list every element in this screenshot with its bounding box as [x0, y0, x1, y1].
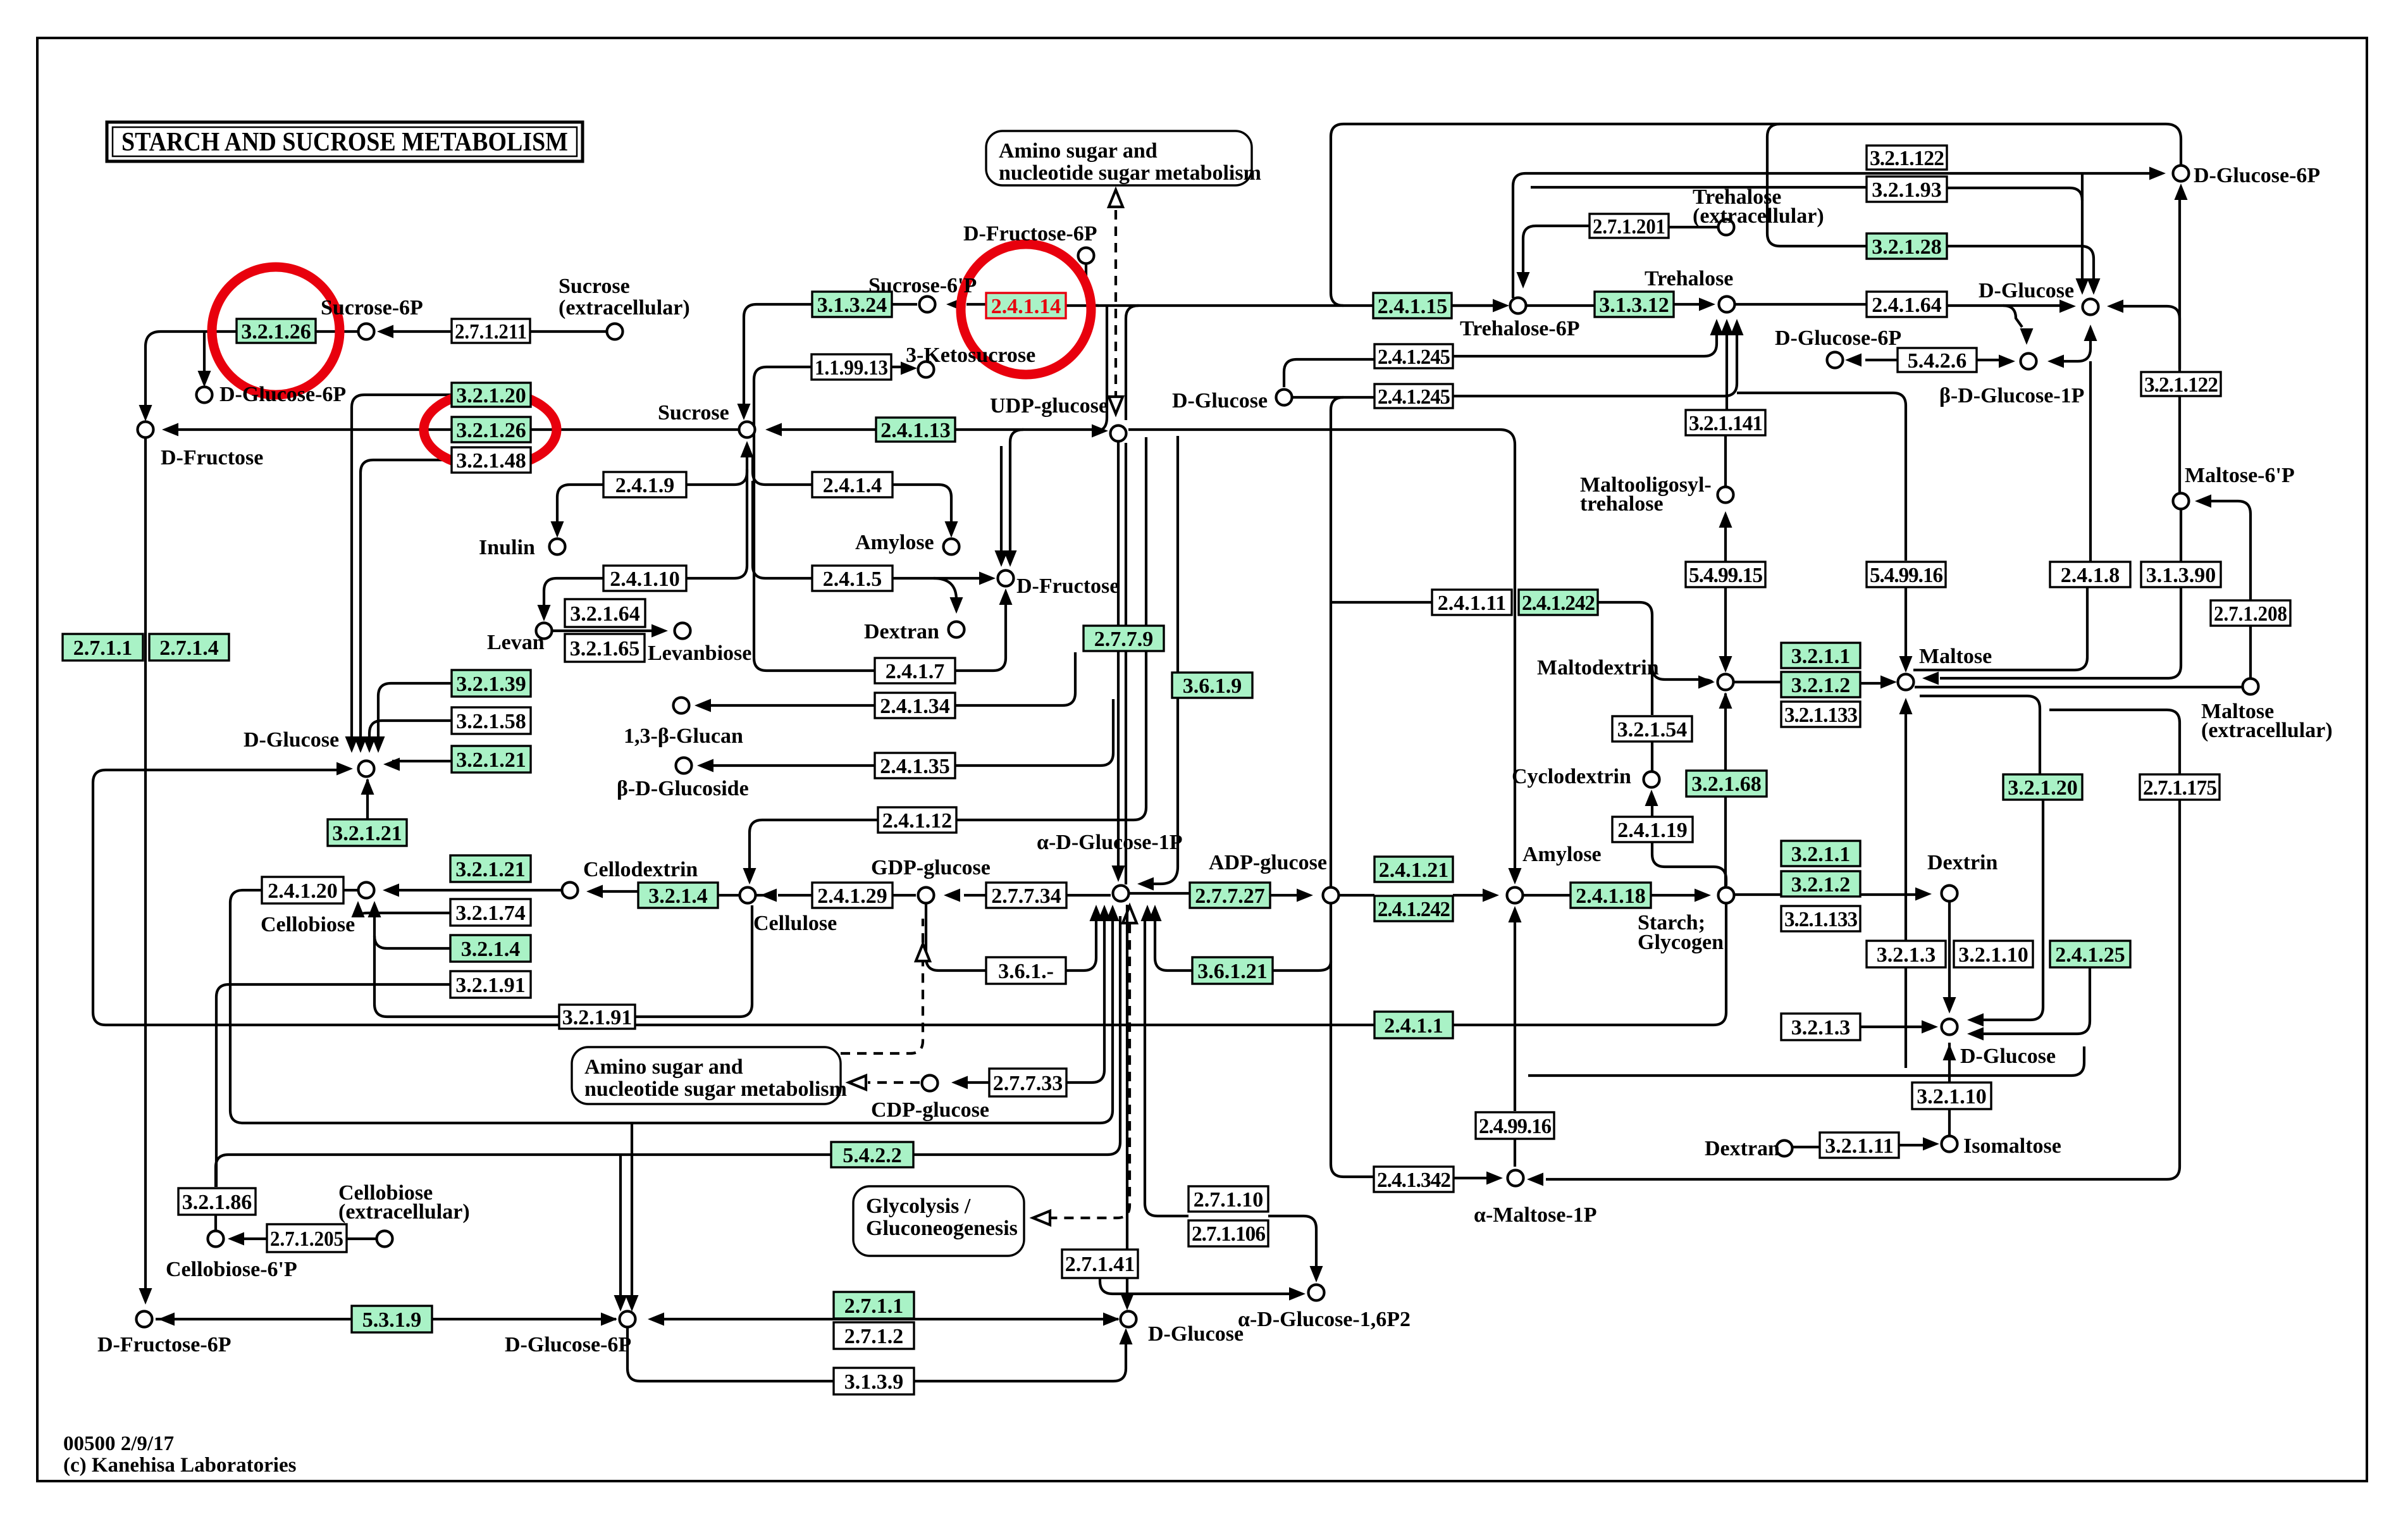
node D-Glucose-6P bottom — [620, 1312, 636, 1327]
wire ADP to 2.4.1.21 row — [1339, 894, 1374, 897]
box 3.1.3.9 — [834, 1368, 914, 1394]
wire cellulose row — [391, 889, 561, 891]
arrowhead into D-Glucose-6P bottom left — [601, 1313, 617, 1326]
svg-text:2.7.7.33: 2.7.7.33 — [993, 1072, 1063, 1095]
wire 2.4.1.34 row — [703, 704, 875, 707]
arrowhead into D-Glucose-6P right bottom — [2175, 183, 2188, 200]
node 3-Ketosucrose — [918, 362, 934, 378]
wire drop b to D-Glucose-6P bottom — [631, 1123, 633, 1303]
svg-text:STARCH AND SUCROSE METABOLI: STARCH AND SUCROSE METABOLISM — [121, 128, 568, 157]
svg-text:Trehalose: Trehalose — [1645, 267, 1733, 290]
open arrowhead open arrow into glycolysis — [1033, 1211, 1050, 1225]
wire dashed hub to glycolysis — [1042, 924, 1130, 1218]
arrowhead into D-Glucose-6P right — [2149, 167, 2166, 180]
wire 2.4.1.34 right — [955, 652, 1075, 705]
box 3.2.1.86 — [178, 1188, 256, 1215]
box 3.6.1.- — [986, 957, 1066, 984]
box 2.4.1.10 — [603, 566, 686, 591]
svg-text:2.7.1.208: 2.7.1.208 — [2214, 602, 2287, 626]
wire dextran2 to 3.2.1.11 — [1792, 1146, 1820, 1148]
wire levan to levanbiose — [552, 630, 660, 632]
wire 2.4.1.29 to GDP — [892, 894, 916, 897]
box 2.4.1.19 — [1612, 817, 1693, 842]
node Cellobiose-6'P — [208, 1231, 224, 1247]
node GDP-glucose — [918, 888, 934, 903]
wire 2.4.1.11 row left — [1331, 601, 1432, 604]
node Cyclodextrin — [1644, 772, 1660, 788]
box 2.7.1.208 — [2211, 600, 2290, 626]
wire drop to D-Glucose-6P top-left — [203, 333, 206, 378]
svg-text:3.2.1.2: 3.2.1.2 — [1791, 873, 1851, 897]
svg-text:D-Glucose-6P: D-Glucose-6P — [505, 1333, 631, 1356]
node Sucrose (extracellular) — [607, 324, 623, 340]
svg-text:2.4.1.7: 2.4.1.7 — [886, 660, 945, 683]
box 2.7.1.4 — [149, 634, 229, 661]
wire 1.1.99.13 to 3-Ketosucrose — [891, 366, 910, 368]
svg-text:2.7.1.211: 2.7.1.211 — [455, 320, 527, 344]
arrowhead into Trehalose b — [1720, 319, 1734, 335]
svg-text:Sucrose-6'P: Sucrose-6'P — [868, 274, 977, 297]
svg-text:3.2.1.4: 3.2.1.4 — [648, 884, 708, 908]
box 2.4.1.13 — [876, 418, 955, 442]
open arrowhead open arrow into amino sugar box — [849, 1076, 866, 1089]
arrowhead into Maltodextrin bottom — [1719, 692, 1732, 709]
wire sucrose down right 2415 — [753, 481, 812, 578]
arrowhead into D-Glucose r top b — [2087, 278, 2101, 295]
wire 3.2.1.21a to hub — [392, 760, 452, 762]
node alpha-D-Glucose-1,6P2 — [1309, 1285, 1324, 1301]
arrowhead into Sucrose top — [738, 404, 751, 420]
box 5.3.1.9 — [352, 1306, 432, 1332]
box 3.1.3.12 — [1595, 292, 1674, 317]
wire D-Fructose to D-Fructose-6P long vertical — [144, 437, 147, 1296]
svg-text:2.4.1.25: 2.4.1.25 — [2055, 943, 2125, 967]
wire sucrose-6P row left into D-Fructose drop — [145, 332, 359, 411]
svg-text:3.2.1.21: 3.2.1.21 — [456, 748, 526, 772]
pathway box amino sugar metabolism (top) — [986, 131, 1252, 185]
svg-text:Maltose: Maltose — [1919, 645, 1992, 668]
svg-text:3.2.1.26: 3.2.1.26 — [456, 419, 526, 442]
wire 2.4.1.35 row — [706, 764, 875, 767]
arrowhead into b-D-Glucose-1P left — [1999, 355, 2015, 368]
arrowhead into Sucrose-6P — [377, 325, 393, 338]
node Maltodextrin — [1718, 674, 1734, 690]
svg-text:(extracellular): (extracellular) — [338, 1200, 470, 1224]
wire 3.2.1.20b down — [1976, 800, 2043, 1020]
wire 5.3.1.9 row right — [432, 1318, 616, 1320]
box 3.2.1.21 #1 — [452, 746, 531, 773]
arrowhead into 1,3-b-glucan — [695, 699, 711, 712]
wire 2.7.1.10 line right to aDG16P2 — [1268, 1216, 1316, 1274]
arrowhead into UDP-glucose — [1092, 425, 1108, 438]
node Amylose top — [944, 539, 960, 555]
node Inulin — [550, 539, 565, 555]
box 2.4.1.4 — [812, 472, 892, 497]
node D-Glucose bottom — [1121, 1312, 1137, 1327]
node alpha-Maltose-1P — [1508, 1170, 1524, 1186]
svg-text:2.4.1.34: 2.4.1.34 — [880, 695, 950, 718]
svg-text:3.2.1.39: 3.2.1.39 — [456, 673, 526, 696]
svg-text:Sucrose: Sucrose — [559, 275, 630, 298]
wire dashed amino sugar to UDP — [1114, 210, 1117, 413]
node Dextran 2 — [1777, 1141, 1793, 1157]
wire GDP down to 3.6.1.- — [926, 904, 986, 971]
arrowhead into aDG1P b — [1098, 905, 1111, 921]
svg-text:Sucrose-6P: Sucrose-6P — [321, 296, 423, 320]
box 3.2.1.133 #1 — [1781, 702, 1860, 727]
arrowhead into Amylose2 bottom — [1509, 906, 1522, 922]
wire 3.2.1.20b up link — [1920, 696, 2040, 774]
box 3.2.1.74 — [450, 899, 531, 926]
box 2.7.1.41 — [1062, 1250, 1138, 1278]
svg-text:Sucrose: Sucrose — [658, 401, 729, 425]
wire maltose extracellular to maltose — [1915, 686, 2242, 688]
box 3.2.1.21 #3 — [450, 855, 531, 882]
wire maltodextrin to 3.2.1.1 row — [1733, 681, 1781, 683]
wire 2.4.1.342 to a-maltose-1P — [1454, 1177, 1495, 1179]
svg-text:2.4.1.13: 2.4.1.13 — [880, 419, 951, 442]
svg-text:Glycogen: Glycogen — [1638, 931, 1724, 954]
svg-text:Inulin: Inulin — [479, 536, 535, 559]
svg-text:nucleotide sugar metabolism: nucleotide sugar metabolism — [999, 161, 1261, 185]
node beta-D-Glucose-1P — [2021, 354, 2037, 369]
svg-text:D-Glucose: D-Glucose — [1148, 1322, 1244, 1346]
arrowhead into D-Fructose2 bottom — [999, 588, 1013, 605]
arrowhead into D-Glucose bottom top — [1121, 1294, 1134, 1310]
wire 2.4.1.8 down to maltose — [1913, 587, 2087, 670]
wire 2.4.1.35 right — [955, 699, 1113, 766]
svg-text:D-Glucose-6P: D-Glucose-6P — [219, 383, 346, 406]
node Dextran top — [949, 622, 965, 638]
box 3.2.1.133 #2 — [1781, 906, 1860, 931]
arrowhead into D-Glucose r top a — [2076, 278, 2089, 295]
wire 3.2.1.68 down to starch — [1724, 797, 1727, 887]
arrowhead into aDG1P d — [1141, 905, 1154, 921]
svg-text:(extracellular): (extracellular) — [1693, 204, 1824, 228]
svg-text:3.2.1.1: 3.2.1.1 — [1791, 645, 1851, 668]
arrowhead into D-Fructose2 top a — [1004, 550, 1017, 567]
svg-text:3.2.1.21: 3.2.1.21 — [332, 822, 402, 845]
svg-text:2.4.1.245: 2.4.1.245 — [1378, 385, 1450, 409]
svg-text:Isomaltose: Isomaltose — [1963, 1134, 2061, 1158]
node D-Fructose 2 — [998, 571, 1014, 586]
wire 2.7.7.33 up to hub — [1066, 916, 1104, 1083]
svg-text:3.2.1.28: 3.2.1.28 — [1872, 235, 1942, 259]
wire drop to D-Fructose2 a — [1010, 430, 1023, 558]
svg-text:2.4.1.19: 2.4.1.19 — [1617, 819, 1688, 842]
arrowhead into D-Glucose4 top — [1943, 997, 1956, 1014]
svg-text:5.4.2.2: 5.4.2.2 — [843, 1144, 902, 1167]
svg-text:ADP-glucose: ADP-glucose — [1209, 851, 1327, 874]
arrowhead into aDG1P upper right — [1137, 878, 1154, 891]
box 2.7.7.34 — [986, 883, 1066, 908]
wire UDP down through 2.7.7.9 — [1117, 442, 1120, 873]
svg-text:2.7.1.1: 2.7.1.1 — [844, 1294, 904, 1318]
wire 2.4.1.1 long left loop — [93, 770, 1374, 1025]
svg-text:3.2.1.3: 3.2.1.3 — [1791, 1016, 1851, 1039]
arrowhead into Levan — [538, 605, 551, 621]
svg-text:3.6.1.9: 3.6.1.9 — [1183, 674, 1242, 698]
arrowhead into D-Fructose2 left — [979, 572, 996, 585]
box 3.2.1.122 #2 — [2141, 372, 2221, 397]
svg-text:2.7.1.1: 2.7.1.1 — [73, 636, 133, 660]
wire 2.7.1.41 down elbow to aDG16P2 — [1100, 1278, 1298, 1294]
wire cellodextrin to 3.2.1.4b — [595, 890, 638, 893]
svg-text:Glycolysis /: Glycolysis / — [866, 1194, 971, 1218]
wire CDP dashed to amino sugar — [868, 1081, 920, 1084]
arrowhead into D-Fructose right — [162, 423, 178, 437]
wire 2.4.1.19 up to Cyclodextrin — [1651, 798, 1653, 817]
svg-text:2.4.1.9: 2.4.1.9 — [615, 474, 675, 497]
svg-text:3.1.3.12: 3.1.3.12 — [1599, 294, 1669, 317]
wire 3.6.1.- up to hub — [1066, 916, 1096, 971]
node Maltose (extracellular) — [2243, 679, 2259, 695]
wire 2.4.1.7 up to D-Fructose2 — [955, 597, 1006, 671]
node Isomaltose — [1942, 1136, 1958, 1152]
box 2.4.1.9 — [603, 472, 686, 497]
wire branch to Dextran — [934, 578, 956, 600]
node D-Glucose center — [359, 761, 374, 777]
arrowhead into DG6P bottom b — [626, 1295, 639, 1312]
arrowhead into 3-Ketosucrose — [901, 362, 917, 375]
node D-Glucose-6P right — [2173, 166, 2189, 182]
arrowhead into D-Glucose bottom bottom — [1120, 1328, 1133, 1344]
arrowhead into Inulin — [551, 521, 564, 538]
wire feed trehalose b from 3.2.1.141 — [1726, 335, 1728, 410]
arrowhead into D-Glucose c left — [337, 762, 353, 776]
box 5.4.2.2 — [831, 1142, 913, 1167]
node Sucrose-6'P — [920, 297, 935, 313]
arrowhead into Maltose-6P — [2195, 495, 2211, 508]
arrowhead into aDG1P top — [1112, 866, 1125, 882]
box 5.4.99.16 — [1867, 562, 1946, 587]
svg-text:3.2.1.54: 3.2.1.54 — [1617, 718, 1688, 741]
svg-text:Cellobiose-6'P: Cellobiose-6'P — [166, 1258, 297, 1281]
box 2.7.7.33 — [989, 1069, 1066, 1096]
node Maltose — [1898, 674, 1914, 690]
box 3.2.1.58 — [452, 707, 531, 734]
wire sucrose down bundle 2 — [686, 469, 747, 578]
wire 3.1.3.9 loop — [627, 1327, 1126, 1381]
wire 2.7.1.175 up link — [2049, 710, 2180, 774]
wire cellobiose big loop — [230, 890, 1113, 1123]
arrowhead into Dextran top — [950, 597, 963, 614]
svg-text:3.2.1.91: 3.2.1.91 — [455, 974, 526, 997]
node D-Glucose-6P top-left — [197, 387, 213, 403]
wire 3.2.1.93 right — [1947, 188, 2082, 201]
wire sucrose to 2.4.1.13 — [775, 428, 876, 431]
arrowhead into D-Glucose c b — [354, 736, 367, 753]
arrowhead into Trehalose-6P — [1493, 299, 1509, 313]
node Maltooligosyltrehalose — [1718, 487, 1734, 503]
box 3.2.1.3 #1 — [1867, 941, 1946, 967]
arrowhead into D-Glucose r right — [2107, 300, 2123, 313]
wire y274 branch down to D-Glucose r — [2081, 173, 2084, 278]
svg-text:2.4.1.242: 2.4.1.242 — [1378, 898, 1450, 921]
wire H1 second drop to UDP top — [1126, 306, 1139, 420]
wire 2.4.1.245 2 row — [1292, 396, 1374, 399]
svg-text:2.4.1.342: 2.4.1.342 — [1377, 1169, 1450, 1192]
box 2.4.1.64 — [1867, 292, 1947, 317]
wire 3.2.1.28 to D-Glucose r — [1767, 124, 1867, 246]
wire UDP loop down to amylose2 — [1128, 430, 1515, 876]
svg-text:β-D-Glucoside: β-D-Glucoside — [617, 777, 749, 800]
wire 2.7.1.201 to trehalose-6P — [1523, 226, 1590, 278]
wire 2.7.1.208 down to Maltose extracellular — [2249, 626, 2252, 678]
wire 3.2.1.54 branch to maltodextrin — [1652, 667, 1712, 682]
svg-text:D-Fructose: D-Fructose — [1016, 574, 1119, 598]
svg-text:α-D-Glucose-1,6P2: α-D-Glucose-1,6P2 — [1238, 1308, 1411, 1331]
arrowhead into D-Glucose c c — [363, 736, 376, 753]
svg-text:2.4.1.18: 2.4.1.18 — [1576, 884, 1646, 908]
svg-text:2.7.1.175: 2.7.1.175 — [2143, 776, 2216, 800]
svg-text:Cellulose: Cellulose — [753, 912, 837, 935]
box 2.7.1.106 — [1189, 1220, 1268, 1246]
pathway box amino sugar metabolism (middle) — [572, 1047, 841, 1104]
wire 3.2.1.3b to D-Glucose4 — [1860, 1026, 1930, 1028]
svg-text:Cellodextrin: Cellodextrin — [583, 858, 698, 881]
svg-text:2.4.1.29: 2.4.1.29 — [817, 884, 887, 908]
box 3.2.1.4 #2 — [638, 883, 718, 908]
svg-text:D-Glucose-6P: D-Glucose-6P — [1775, 326, 1901, 350]
svg-text:GDP-glucose: GDP-glucose — [871, 856, 991, 879]
box 3.2.1.10 #1 — [1954, 941, 2033, 967]
wire 2.4.1.245 2 feed trehalose mid — [1453, 383, 1737, 396]
arrowhead into Cellulose — [760, 889, 777, 902]
arrowhead into b-D-Glucose-1P top — [2020, 328, 2034, 345]
wire 3.2.1.39 to hub — [378, 683, 452, 738]
box 3.2.1.3 #2 — [1781, 1014, 1860, 1040]
box 2.4.1.15 — [1373, 293, 1452, 318]
svg-text:α-D-Glucose-1P: α-D-Glucose-1P — [1037, 831, 1182, 854]
wire 3.1.3.24 left elbow down to Sucrose — [744, 304, 812, 410]
svg-text:D-Glucose-6P: D-Glucose-6P — [2194, 164, 2320, 187]
wire 3.2.1.21b up to D-Glucose c — [366, 779, 369, 819]
wire y1690 from amylose col to D-Glucose4 — [1528, 1046, 2084, 1076]
box 2.4.1.25 — [2050, 941, 2130, 967]
wire 5.4.2.2 loop — [216, 916, 1120, 1187]
svg-text:Maltose-6'P: Maltose-6'P — [2185, 464, 2295, 487]
wire 2.4.1.242a down to 3.2.1.54 — [1598, 602, 1652, 715]
svg-text:3.1.3.9: 3.1.3.9 — [844, 1370, 904, 1394]
wire 3.2.1.54 down to Cyclodextrin — [1651, 741, 1653, 771]
arrowhead into D-Glucose r bottom — [2084, 325, 2097, 341]
pathway box glycolysis gluconeogenesis — [853, 1186, 1024, 1256]
svg-text:00500 2/9/17: 00500 2/9/17 — [63, 1432, 174, 1455]
open arrowhead open arrow up to GDP — [916, 944, 930, 961]
wire 3.6.1.9 elbow to aDG1P — [1146, 436, 1178, 884]
box 2.4.1.21 #1 — [1374, 857, 1453, 882]
arrowhead into Maltose top — [1899, 656, 1913, 673]
wire 3.2.1.4a elbow — [374, 936, 450, 948]
wire amylose2 to 2.4.1.18 — [1522, 894, 1571, 897]
node Trehalose — [1719, 297, 1735, 313]
wire 3.2.1.93 stub — [1531, 186, 1867, 189]
box 3.2.1.39 — [452, 670, 531, 697]
node Trehalose-6P — [1510, 298, 1526, 314]
wire 2.4.1.21 row to amylose2 — [1453, 894, 1491, 897]
arrowhead into a-D-glucose-1,6P2 top — [1310, 1266, 1323, 1282]
box 5.4.2.6 — [1898, 348, 1977, 373]
box 3.2.1.10 #2 — [1912, 1083, 1991, 1109]
wire 2.4.1.15 to trehalose-6P segment — [1452, 304, 1493, 307]
svg-text:3.2.1.122: 3.2.1.122 — [2144, 373, 2218, 397]
arrowhead into Maltose bottom — [1899, 698, 1913, 714]
node D-Fructose — [138, 422, 154, 438]
box 3.2.1.2 #2 — [1781, 871, 1860, 897]
box 2.4.1.35 — [875, 753, 955, 778]
node D-Fructose-6P bottom — [137, 1312, 152, 1327]
svg-text:Amino sugar and: Amino sugar and — [584, 1055, 743, 1079]
box 3.2.1.2 #1 — [1781, 672, 1860, 697]
svg-text:Gluconeogenesis: Gluconeogenesis — [866, 1217, 1018, 1240]
svg-text:3.2.1.11: 3.2.1.11 — [1825, 1134, 1894, 1158]
svg-text:CDP-glucose: CDP-glucose — [871, 1098, 989, 1122]
svg-text:3.2.1.64: 3.2.1.64 — [570, 602, 640, 626]
arrowhead into Cellobiose bottom b — [368, 901, 381, 917]
wire 2.7.1.208 corner to Maltose-6P — [2204, 501, 2251, 600]
wire dashed GDP riser upper — [922, 919, 924, 943]
wire 2.4.1.5 to D-Fructose2 — [892, 577, 988, 580]
wire 2.4.1.8 up — [2089, 361, 2092, 562]
wire 2.7.1.10 line left riser — [1145, 916, 1189, 1216]
wire sucrose down bundle — [686, 457, 747, 485]
wire 2.7.1.1 bottom row — [655, 1318, 1118, 1320]
wire 2.4.1.64 to D-Glucose right — [1947, 304, 2067, 307]
svg-text:D-Fructose: D-Fructose — [161, 446, 263, 469]
wire 2.4.1.9 to Inulin — [557, 485, 603, 528]
wire starch to dextrin row — [1734, 893, 1923, 896]
wire 3.2.1.141 to maltooligosyltrehalose — [1724, 435, 1727, 486]
svg-text:D-Glucose: D-Glucose — [1979, 279, 2074, 302]
arrowhead into aDG1P a — [1090, 905, 1103, 921]
arrowhead into a-Maltose-1P left — [1486, 1172, 1503, 1185]
svg-text:3.2.1.1: 3.2.1.1 — [1791, 843, 1851, 866]
box 2.4.1.1 — [1374, 1012, 1453, 1038]
svg-text:5.3.1.9: 5.3.1.9 — [362, 1308, 422, 1332]
arrowhead into Levanbiose — [651, 624, 668, 638]
wire 3.2.1.48 to hub — [361, 460, 452, 738]
wire maltose long down vertical — [1905, 714, 1907, 1068]
arrowhead into aDG1P c — [1106, 905, 1120, 921]
arrowhead into a-Maltose-1P right — [1527, 1173, 1543, 1186]
box 2.4.1.342 — [1374, 1167, 1454, 1192]
box 3.1.3.90 — [2141, 562, 2221, 587]
svg-text:3.2.1.141: 3.2.1.141 — [1689, 412, 1762, 435]
arrowhead into DG6P bottom a — [614, 1295, 627, 1312]
wire H3 branch down long — [1331, 397, 1374, 1177]
wire trehalose to 2.4.1.64 — [1734, 303, 1867, 306]
arrowhead into Trehalose-6P top — [1517, 272, 1530, 289]
wire dashed GDP riser — [841, 962, 923, 1053]
svg-text:UDP-glucose: UDP-glucose — [990, 394, 1108, 418]
svg-text:D-Fructose-6P: D-Fructose-6P — [963, 222, 1097, 245]
box 2.7.1.201 — [1590, 214, 1669, 239]
box 2.4.99.16 — [1476, 1112, 1554, 1139]
arrowhead into D-Glucose4 left — [1922, 1021, 1938, 1034]
svg-text:2.4.1.15: 2.4.1.15 — [1378, 295, 1448, 318]
box 2.4.1.11 — [1432, 590, 1512, 615]
svg-text:3.2.1.2: 3.2.1.2 — [1791, 674, 1851, 697]
box 5.4.99.15 — [1686, 562, 1765, 587]
wire 2.4.99.16 down to a-maltose-1P — [1514, 1139, 1516, 1167]
wire feed trehalose a from 2.4.1.245 row — [1453, 335, 1717, 356]
arrowhead into maltooligosyltrehalose — [1719, 511, 1732, 528]
wire 2.7.7.34 to GDP — [964, 894, 986, 897]
red highlight circle on 2.4.1.14 — [961, 244, 1091, 375]
wire 3.2.1.91a left elbow — [216, 984, 450, 1187]
box 3.2.1.26 #1 — [237, 319, 316, 344]
